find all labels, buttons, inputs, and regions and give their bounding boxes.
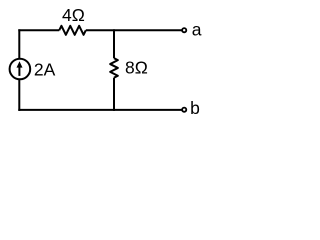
svg-text:b: b xyxy=(190,98,200,118)
svg-text:2A: 2A xyxy=(34,59,56,79)
terminal a (open circle) xyxy=(182,28,186,32)
wire: bottom horizontal segment from corner to terminal b xyxy=(18,109,181,111)
wire: left vertical segment from top-left corner down to current source xyxy=(18,29,20,59)
current source arrow (pointing up) xyxy=(17,61,23,76)
svg-text:8Ω: 8Ω xyxy=(125,58,148,78)
wire: middle branch, from top wire junction down to 8-ohm resistor xyxy=(113,29,115,58)
terminal b (open circle) xyxy=(182,108,186,112)
svg-text:4Ω: 4Ω xyxy=(62,5,85,25)
wire: top horizontal segment from resistor to terminal a xyxy=(86,29,182,31)
wire: middle branch, from 8-ohm resistor down to bottom wire junction xyxy=(113,78,115,111)
wire: top-left horizontal segment from corner to resistor xyxy=(18,29,59,31)
resistor 4Ω (horizontal zigzag) xyxy=(59,26,86,35)
wire: left vertical segment from current source down to bottom-left corner xyxy=(18,79,20,111)
resistor 8Ω (vertical zigzag) xyxy=(110,58,118,78)
svg-text:a: a xyxy=(192,20,202,40)
current source (2A), circle symbol xyxy=(10,59,31,80)
